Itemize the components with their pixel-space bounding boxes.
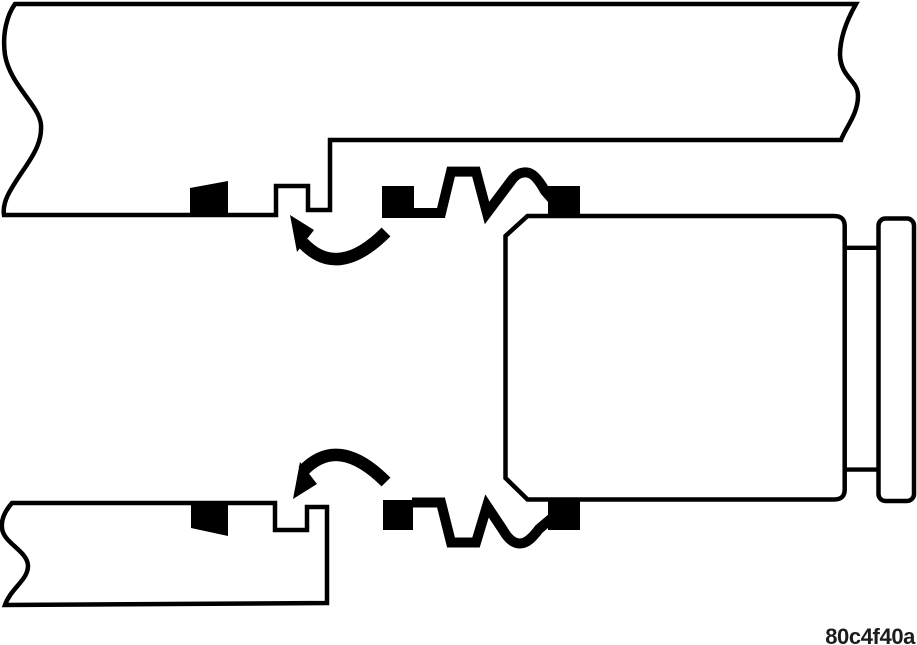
svg-text:80c4f40a: 80c4f40a <box>825 624 916 645</box>
